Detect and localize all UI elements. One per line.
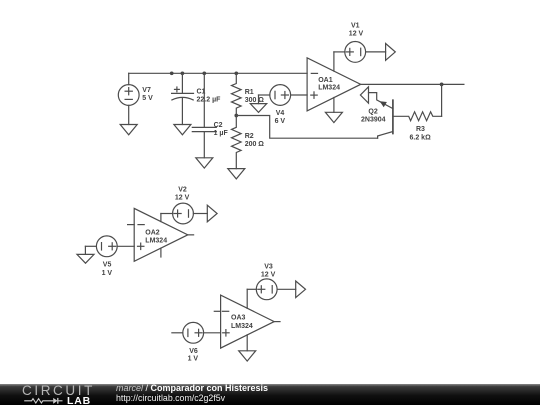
node C1 top xyxy=(181,71,185,75)
svg-text:V1: V1 xyxy=(351,23,360,30)
resistor R3 xyxy=(393,112,442,142)
resistor R1 xyxy=(232,73,265,115)
svg-text:V5: V5 xyxy=(103,261,112,268)
svg-text:Q2: Q2 xyxy=(368,108,377,115)
footer bar xyxy=(0,384,540,405)
ground (OA3 V-) xyxy=(239,351,256,361)
svg-text:1 V: 1 V xyxy=(188,356,199,363)
svg-text:V3: V3 xyxy=(264,263,273,270)
svg-text:V2: V2 xyxy=(178,187,187,194)
svg-text:C2: C2 xyxy=(214,122,223,129)
svg-text:22.2 µF: 22.2 µF xyxy=(197,97,222,104)
svg-text:12 V: 12 V xyxy=(175,195,190,202)
svg-text:R1: R1 xyxy=(245,89,254,96)
voltage source V3 xyxy=(247,263,296,299)
ground (C1) xyxy=(174,125,191,135)
svg-text:OA1: OA1 xyxy=(318,77,333,84)
svg-text:R2: R2 xyxy=(245,133,254,140)
capacitor C1 xyxy=(172,73,222,124)
svg-text:1 µF: 1 µF xyxy=(214,130,229,137)
flag terminal (V2) xyxy=(207,205,217,222)
flag terminal (OA1 output) xyxy=(360,87,368,103)
node R1 top xyxy=(234,71,238,75)
svg-text:V6: V6 xyxy=(189,348,198,355)
svg-text:V4: V4 xyxy=(276,110,285,117)
ground (V4) xyxy=(250,95,266,112)
wire feedback (Q2 collector to R1-R2 node) xyxy=(236,116,377,139)
resistor R2 xyxy=(232,116,265,169)
svg-text:LM324: LM324 xyxy=(318,85,340,92)
voltage source V2 xyxy=(161,187,207,224)
wire OA1 output xyxy=(361,83,464,85)
transistor Q2 xyxy=(361,93,393,139)
svg-text:12 V: 12 V xyxy=(261,272,276,279)
svg-text:5 V: 5 V xyxy=(142,95,153,102)
svg-text:OA3: OA3 xyxy=(231,315,246,322)
svg-text:200 Ω: 200 Ω xyxy=(245,141,265,148)
voltage source V5 xyxy=(85,236,134,277)
node on rail (junction) xyxy=(170,71,174,75)
voltage source V4 xyxy=(259,85,308,125)
svg-text:LM324: LM324 xyxy=(145,238,167,245)
op-amp OA2 xyxy=(128,208,194,261)
capacitor C2 xyxy=(192,73,228,158)
flag terminal (V3) xyxy=(296,281,306,298)
node R1-R2 junction xyxy=(234,114,238,118)
op-amp OA3 xyxy=(214,289,280,351)
svg-text:1 V: 1 V xyxy=(102,270,113,277)
svg-text:OA2: OA2 xyxy=(145,229,160,236)
flag terminal (V1) xyxy=(386,44,396,61)
svg-text:2N3904: 2N3904 xyxy=(361,117,386,124)
voltage source V7 xyxy=(118,73,153,124)
ground (V5) xyxy=(77,246,94,263)
svg-text:R3: R3 xyxy=(416,126,425,133)
svg-text:12 V: 12 V xyxy=(349,30,364,37)
wire R3 to output node xyxy=(441,84,443,116)
node C2 top xyxy=(202,71,206,75)
voltage source V1 xyxy=(334,23,386,63)
svg-text:LM324: LM324 xyxy=(231,323,253,330)
svg-text:V7: V7 xyxy=(142,87,151,94)
CircuitLab logo xyxy=(22,383,95,398)
ground (R2) xyxy=(228,169,245,179)
svg-text:300 Ω: 300 Ω xyxy=(245,97,265,104)
wire top rail xyxy=(129,72,307,74)
svg-text:6.2 kΩ: 6.2 kΩ xyxy=(410,135,432,142)
ground (V7) xyxy=(120,125,137,135)
voltage source V6 xyxy=(172,322,221,362)
ground (OA1 V-) xyxy=(325,112,342,122)
node OA1 output junction xyxy=(440,83,444,87)
op-amp OA1 xyxy=(307,52,361,112)
svg-text:6 V: 6 V xyxy=(275,118,286,125)
ground (C2) xyxy=(196,158,213,168)
